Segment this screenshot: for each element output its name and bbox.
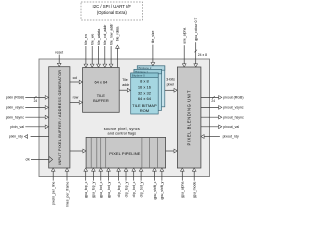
wire 3-bits pixel: ROM stack to blending unit xyxy=(165,78,177,93)
input reset xyxy=(55,51,63,67)
input gpu_colour 0:7 bus 24x8 xyxy=(194,18,207,67)
output pixout (RGB) bus width 24 xyxy=(201,96,244,103)
ROM bitplane 1 (middle) xyxy=(134,69,162,110)
wire row: address generator to tile buffer xyxy=(70,96,83,105)
block U4: pixel pipeline with stage registers xyxy=(86,137,166,168)
svg-text:3-bits: 3-bits xyxy=(166,78,175,82)
svg-text:pixin_hsync: pixin_hsync xyxy=(6,115,25,119)
svg-text:8 x 8: 8 x 8 xyxy=(140,78,149,83)
input clip_bot_x xyxy=(132,168,136,197)
input use_alpha xyxy=(182,28,186,67)
svg-text:gpu_mode: gpu_mode xyxy=(193,182,197,199)
svg-text:64 x 64: 64 x 64 xyxy=(138,96,152,101)
ROM bitplane 0 (front) with tile sizes xyxy=(131,73,159,114)
svg-text:tile_rdata: tile_rdata xyxy=(116,27,120,41)
svg-text:tile_en: tile_en xyxy=(84,34,88,44)
net label: source pixel, syncs and control flags xyxy=(104,127,140,136)
block U3: pixel blending unit xyxy=(177,67,201,168)
svg-text:16 x 16: 16 x 16 xyxy=(138,84,152,89)
input pixin_hsync xyxy=(6,115,49,119)
svg-text:PIXEL BLENDING UNIT: PIXEL BLENDING UNIT xyxy=(187,90,192,145)
svg-text:gpu_shift_y: gpu_shift_y xyxy=(160,181,164,199)
svg-text:clip_top_x: clip_top_x xyxy=(117,181,121,197)
svg-text:pixel: pixel xyxy=(167,82,174,86)
input tile_size xyxy=(151,31,155,66)
svg-text:clk: clk xyxy=(26,158,31,162)
svg-text:use_alpha: use_alpha xyxy=(183,28,187,44)
svg-text:addr: addr xyxy=(122,83,130,87)
svg-text:tile_size: tile_size xyxy=(151,31,155,44)
input gpu_shift_y xyxy=(160,168,164,200)
ROM bitplane 2 (back) xyxy=(137,66,165,107)
svg-text:PIXEL PIPELINE: PIXEL PIPELINE xyxy=(109,151,140,156)
wire: pixel pipeline to blending unit xyxy=(166,149,178,153)
svg-text:64 x 64: 64 x 64 xyxy=(95,80,109,85)
input gpu_shift_x xyxy=(153,168,157,200)
svg-text:pixin_rdy: pixin_rdy xyxy=(9,135,23,139)
svg-text:lines_per_frame: lines_per_frame xyxy=(65,182,69,207)
svg-text:BUFFER: BUFFER xyxy=(93,98,109,103)
svg-text:32 x 32: 32 x 32 xyxy=(138,90,152,95)
input clip_bot_y xyxy=(139,168,143,197)
input tile_col_addr xyxy=(103,24,107,67)
svg-text:tile_we: tile_we xyxy=(91,34,95,45)
block U2: tile buffer 64x64 xyxy=(83,68,120,113)
input tile_wdata xyxy=(97,29,101,68)
input tile_en xyxy=(84,34,88,67)
svg-text:pixout_val: pixout_val xyxy=(223,125,239,129)
svg-text:Bitplane 0: Bitplane 0 xyxy=(132,73,145,77)
input gpu_top_y xyxy=(92,168,96,198)
output pixout_hsync xyxy=(201,115,244,119)
svg-text:tile_col_addr: tile_col_addr xyxy=(103,24,107,45)
wire tile addr: tile buffer to bitmap ROM xyxy=(119,78,130,92)
outer block: tile engine top level xyxy=(39,59,210,177)
svg-text:gpu_colour 0:7: gpu_colour 0:7 xyxy=(194,18,198,41)
input lines_per_frame xyxy=(65,168,69,207)
svg-text:gpu_top_x: gpu_top_x xyxy=(84,181,88,198)
svg-text:pixin (RGB): pixin (RGB) xyxy=(6,96,24,100)
svg-text:pixout (RGB): pixout (RGB) xyxy=(223,96,243,100)
svg-text:tile_wdata: tile_wdata xyxy=(97,29,101,45)
svg-text:pixels_per_line: pixels_per_line xyxy=(52,182,56,205)
svg-text:clip_bot_y: clip_bot_y xyxy=(139,181,143,197)
svg-text:clip_top_y: clip_top_y xyxy=(124,181,128,197)
input clk with clock triangle xyxy=(26,156,53,162)
svg-text:I2C / SPI / UART I/F: I2C / SPI / UART I/F xyxy=(93,4,132,9)
svg-text:gpu_bot_x: gpu_bot_x xyxy=(99,181,103,198)
wire: address generator to pixel pipeline xyxy=(70,149,86,153)
input gpu_bot_y xyxy=(107,168,111,198)
input tile_row_addr xyxy=(109,23,113,68)
input gpu_mode xyxy=(192,168,196,198)
svg-text:row: row xyxy=(73,96,79,100)
input gpu_bot_x xyxy=(99,168,103,198)
block U1: input pixel buffer / address generator xyxy=(49,67,70,168)
svg-text:reset: reset xyxy=(55,51,63,55)
svg-text:col: col xyxy=(73,76,78,80)
output tile_rdata (read-back to optional interface) xyxy=(116,27,120,68)
svg-text:24: 24 xyxy=(34,99,38,103)
output pixout_vsync xyxy=(201,106,244,110)
input clip_top_y xyxy=(124,168,128,197)
svg-text:gpu_alpha: gpu_alpha xyxy=(181,182,185,198)
input pixin_vsync xyxy=(6,106,48,110)
output pixin_rdy xyxy=(9,135,49,139)
svg-text:pixout_hsync: pixout_hsync xyxy=(223,115,244,119)
svg-text:(Optional Extra): (Optional Extra) xyxy=(97,10,128,15)
svg-text:pixin_vsync: pixin_vsync xyxy=(6,106,24,110)
svg-text:source pixel, syncs: source pixel, syncs xyxy=(104,127,140,131)
svg-text:and control flags: and control flags xyxy=(108,131,137,135)
svg-text:clip_bot_x: clip_bot_x xyxy=(132,181,136,197)
svg-text:gpu_bot_y: gpu_bot_y xyxy=(107,181,111,198)
input pixin_val xyxy=(10,125,48,129)
svg-text:tile_row_addr: tile_row_addr xyxy=(109,23,113,45)
svg-text:ROM: ROM xyxy=(140,108,149,113)
output pixout_val xyxy=(201,125,239,129)
svg-text:Tile: Tile xyxy=(122,78,128,82)
input pixels_per_line xyxy=(51,168,55,205)
input pixin (RGB) bus with width 24 xyxy=(6,96,48,103)
svg-text:INPUT PIXEL BUFFER / ADDRESS G: INPUT PIXEL BUFFER / ADDRESS GENERATOR xyxy=(58,70,62,165)
input tile_we xyxy=(90,34,94,68)
optional I2C/SPI/UART interface box xyxy=(81,2,143,20)
wire col: address generator to tile buffer xyxy=(70,76,83,84)
svg-text:24: 24 xyxy=(211,99,215,103)
svg-text:pixin_val: pixin_val xyxy=(10,125,24,129)
input gpu_top_x xyxy=(84,168,88,198)
svg-text:24 x 8: 24 x 8 xyxy=(198,53,207,57)
svg-text:pixout_rdy: pixout_rdy xyxy=(223,135,239,139)
svg-text:gpu_top_y: gpu_top_y xyxy=(92,181,96,198)
input clip_top_x xyxy=(117,168,121,197)
svg-text:gpu_shift_x: gpu_shift_x xyxy=(153,181,157,199)
input pixout_rdy xyxy=(201,135,239,139)
input gpu_alpha xyxy=(180,168,184,198)
svg-text:pixout_vsync: pixout_vsync xyxy=(223,106,243,110)
